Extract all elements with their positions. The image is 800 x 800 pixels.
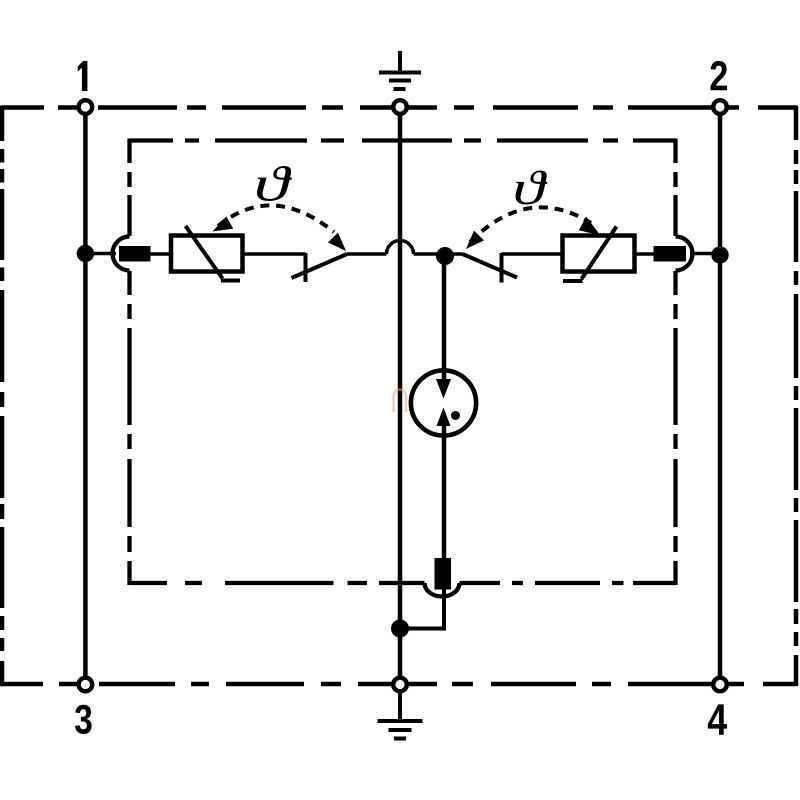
arrowhead to varistor RV1 bbox=[213, 216, 234, 231]
terminal 3 circle bbox=[79, 678, 93, 692]
varistor RV2 diagonal bbox=[563, 227, 617, 282]
wire hop over center column bbox=[387, 241, 414, 254]
ground (top) bbox=[379, 51, 421, 89]
terminal 2 circle bbox=[713, 100, 727, 114]
wire: hop to node N1 bbox=[414, 252, 446, 256]
spark gap trigger dot bbox=[451, 411, 460, 420]
varistor RV1 body bbox=[171, 236, 243, 272]
wire: switch to varistor RV2 bbox=[502, 252, 563, 256]
spark gap upper electrode lead bbox=[442, 370, 447, 381]
outer enclosure border right edge bbox=[794, 106, 799, 687]
thermal disconnect switch (right): blade bbox=[463, 254, 518, 278]
wire: contact bar to varistor RV1 bbox=[150, 252, 171, 256]
wire: switch to crossover hop bbox=[347, 252, 387, 256]
wire: varistor RV2 to contact bar bbox=[635, 252, 656, 256]
inner device border top edge bbox=[130, 138, 676, 142]
varistor RV1 diagonal bbox=[186, 226, 241, 281]
inner device border right edge with plug-contact arc bbox=[676, 139, 693, 586]
wire: node N1 stub to right switch blade bbox=[445, 252, 463, 256]
theta label (right) bbox=[516, 171, 548, 205]
label terminal 1 bbox=[78, 61, 88, 91]
wire: center earth column bbox=[398, 107, 403, 684]
inner device border bottom edge with hop over spark-gap lead bbox=[130, 583, 676, 597]
theta label (left) bbox=[257, 166, 292, 201]
disconnector contact bar (right, filled) bbox=[654, 246, 687, 262]
terminal 1 circle bbox=[79, 100, 93, 114]
inner device border left edge with plug-contact arc bbox=[113, 139, 130, 586]
thermal action dashed arc (left) bbox=[218, 205, 334, 232]
disconnector contact bar (left, filled) bbox=[119, 246, 151, 262]
thermal disconnect switch (right): fixed post bbox=[500, 253, 504, 283]
earth terminal circle (top) bbox=[393, 100, 407, 114]
wire: dot to left plug arc bbox=[85, 252, 116, 256]
spark gap upper electrode arrow bbox=[436, 379, 451, 399]
terminal 4 circle bbox=[713, 678, 727, 692]
label terminal 3 bbox=[75, 705, 92, 734]
label terminal 4 bbox=[708, 704, 727, 734]
node: junction dot on column 2-4 bbox=[711, 246, 728, 263]
node: junction dot on center column bbox=[391, 620, 409, 638]
ground (bottom) bbox=[378, 693, 423, 739]
wire: node N1 down to spark gap bbox=[442, 254, 447, 381]
arrowhead to varistor RV2 bbox=[579, 217, 601, 236]
node: junction dot on column 1-3 bbox=[77, 245, 94, 262]
varistor RV2 body bbox=[563, 236, 635, 272]
wire: electrode block down and left to center column bbox=[404, 589, 444, 629]
thermal disconnect switch (left): blade bbox=[292, 254, 348, 278]
thermal disconnect switch (left): fixed post bbox=[304, 253, 308, 282]
outer enclosure border bottom edge bbox=[0, 682, 796, 687]
thermal action dashed arc (right) bbox=[470, 207, 591, 242]
wire: right plug arc to node on column 2-4 bbox=[690, 252, 714, 256]
wire: left terminal column 1-3 bbox=[83, 107, 88, 684]
arrowhead to left switch bbox=[328, 233, 346, 251]
arrowhead to right switch bbox=[466, 231, 484, 249]
wire: spark gap down to electrode block bbox=[442, 426, 447, 560]
earth terminal circle (bottom) bbox=[393, 678, 407, 692]
node N1 junction dot bbox=[436, 247, 454, 265]
wire: varistor RV1 to thermal switch bbox=[243, 252, 306, 256]
wire: right terminal column 2-4 bbox=[718, 107, 723, 684]
outer enclosure border top edge bbox=[2, 105, 796, 110]
spark gap F1 circle bbox=[411, 370, 476, 435]
faint crossing mark on center column bbox=[394, 390, 406, 412]
outer enclosure border left edge bbox=[0, 106, 4, 687]
spark gap lower electrode arrow bbox=[437, 408, 451, 427]
electrode block (filled) bbox=[435, 558, 452, 590]
label terminal 2 bbox=[710, 61, 726, 90]
